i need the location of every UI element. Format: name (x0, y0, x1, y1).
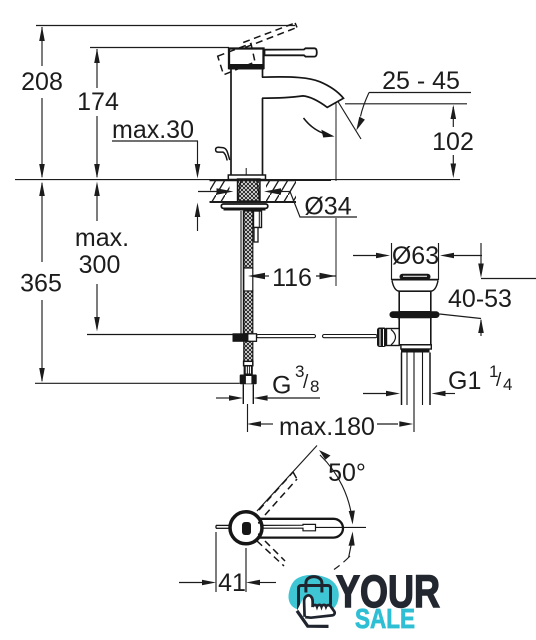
svg-text:/: / (303, 372, 309, 393)
svg-text:8: 8 (310, 377, 319, 396)
svg-text:G1: G1 (448, 367, 481, 395)
svg-text:40-53: 40-53 (448, 285, 512, 313)
svg-text:4: 4 (503, 375, 512, 394)
svg-text:SALE: SALE (355, 603, 415, 634)
svg-text:41: 41 (218, 569, 246, 597)
svg-text:300: 300 (79, 251, 121, 279)
svg-text:max.180: max.180 (279, 413, 375, 441)
svg-text:Ø63: Ø63 (392, 242, 439, 270)
svg-text:max.: max. (75, 224, 129, 252)
svg-text:/: / (496, 370, 502, 391)
svg-text:365: 365 (20, 270, 62, 298)
svg-text:max.30: max.30 (112, 116, 194, 144)
svg-text:G: G (272, 372, 291, 400)
svg-text:25 - 45: 25 - 45 (382, 67, 460, 95)
svg-text:174: 174 (77, 88, 119, 116)
svg-text:208: 208 (21, 68, 63, 96)
svg-text:Ø34: Ø34 (304, 193, 351, 221)
svg-text:102: 102 (432, 128, 474, 156)
svg-text:50°: 50° (328, 459, 366, 487)
svg-text:116: 116 (272, 264, 312, 292)
